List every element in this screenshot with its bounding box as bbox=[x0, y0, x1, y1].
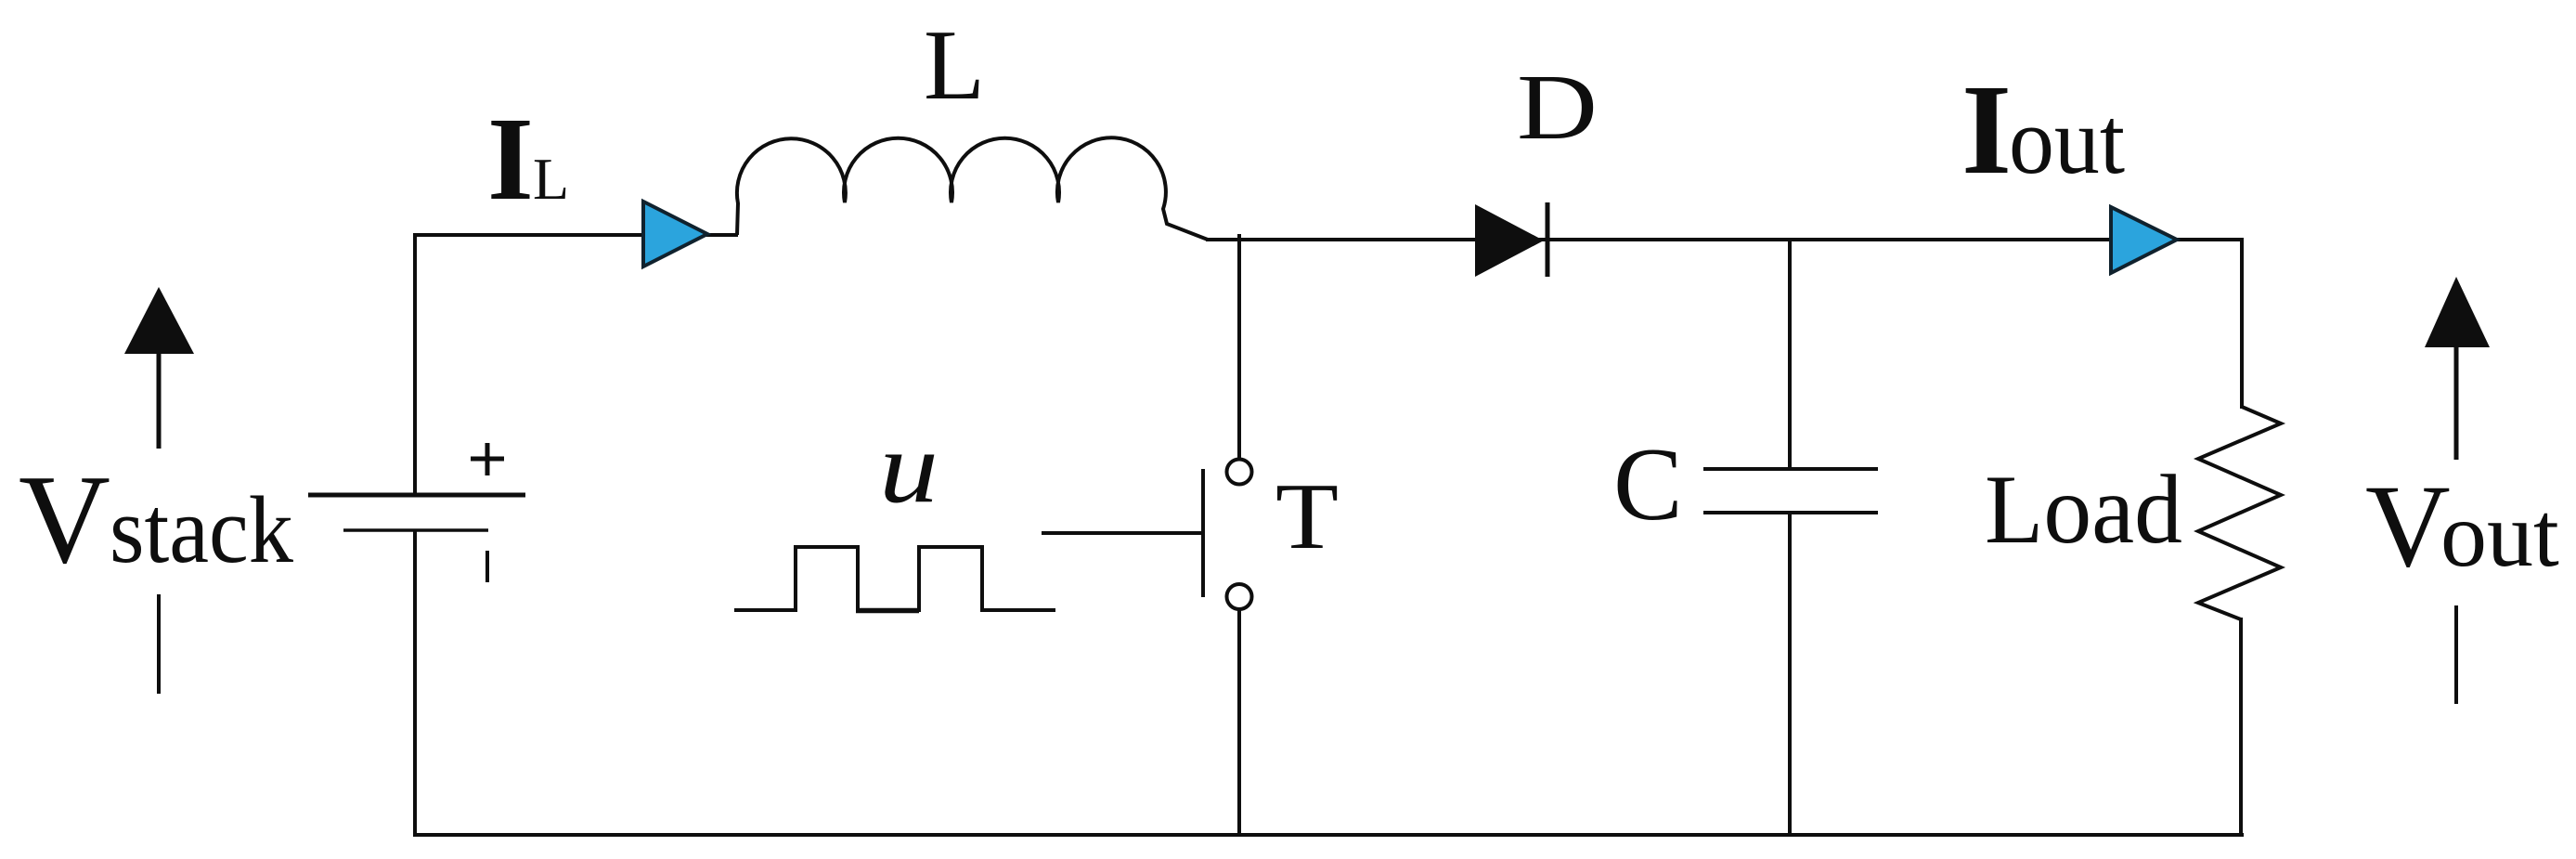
capacitor C branch upper wire bbox=[1788, 238, 1792, 469]
capacitor C plate bottom bbox=[1703, 511, 1878, 514]
load branch upper wire bbox=[2240, 238, 2244, 409]
transistor T top terminal circle bbox=[1227, 460, 1252, 485]
svg-text:L: L bbox=[924, 10, 985, 121]
battery minus tick bbox=[485, 551, 489, 582]
load branch lower wire bbox=[2239, 618, 2243, 837]
svg-text:u: u bbox=[879, 410, 938, 524]
battery V_stack plate - (short) bbox=[343, 528, 488, 532]
wire top-left horizontal bbox=[413, 233, 738, 237]
wire bottom bbox=[413, 833, 2244, 837]
wire T branch lower bbox=[1237, 610, 1241, 837]
V_stack lower dash bbox=[157, 594, 161, 694]
svg-text:V: V bbox=[2365, 462, 2451, 592]
svg-text:stack: stack bbox=[110, 477, 293, 583]
wire u waveform low segment (thicker) bbox=[856, 608, 919, 614]
capacitor C plate top bbox=[1703, 467, 1878, 471]
svg-text:D: D bbox=[1517, 55, 1598, 159]
svg-text:L: L bbox=[533, 146, 569, 212]
battery V_stack plate + (long) bbox=[308, 493, 525, 498]
V_out lower dash bbox=[2454, 605, 2458, 704]
svg-text:I: I bbox=[1961, 59, 2012, 202]
svg-text:C: C bbox=[1613, 427, 1683, 542]
svg-text:Load: Load bbox=[1985, 455, 2182, 564]
transistor T bottom terminal circle bbox=[1227, 584, 1252, 609]
svg-text:out: out bbox=[2440, 483, 2559, 586]
svg-text:out: out bbox=[2009, 88, 2125, 194]
current arrow I_L bbox=[643, 202, 707, 267]
transistor T gate lead wire bbox=[1042, 531, 1203, 535]
wire top-right horizontal bbox=[1206, 238, 2244, 241]
u PWM square wave bbox=[734, 547, 1055, 610]
capacitor C branch lower wire bbox=[1788, 513, 1792, 837]
wire left rail lower bbox=[413, 530, 417, 837]
inductor L bbox=[737, 137, 1208, 240]
transistor T gate bar bbox=[1201, 469, 1205, 597]
current arrow I_out bbox=[2111, 207, 2177, 273]
node junction tick at T branch bbox=[1237, 234, 1241, 458]
wire left rail upper bbox=[413, 233, 417, 495]
V_out arrow bbox=[2425, 277, 2490, 460]
svg-text:T: T bbox=[1275, 464, 1339, 569]
V_stack arrow bbox=[124, 287, 194, 449]
resistor Load zigzag bbox=[2198, 407, 2281, 619]
diode D bbox=[1475, 202, 1547, 277]
svg-text:I: I bbox=[487, 93, 534, 225]
battery plus sign bbox=[471, 443, 504, 475]
svg-text:V: V bbox=[19, 449, 110, 590]
